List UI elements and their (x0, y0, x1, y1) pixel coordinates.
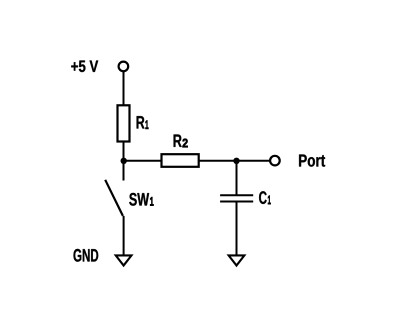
label R2 (174, 135, 182, 147)
label SW1 (129, 193, 149, 206)
switch SW1 blade (105, 180, 123, 216)
capacitor C1 top plate (220, 194, 253, 196)
terminal Port (270, 156, 280, 166)
node A junction dot (121, 158, 127, 164)
wire node A to switch (123, 161, 125, 181)
ground (left, under SW1) (114, 254, 134, 267)
wire R2 to Port terminal (199, 160, 271, 162)
wire node B to C1 (236, 161, 238, 196)
resistor R2 (162, 154, 199, 167)
ground (right, under C1) (227, 254, 247, 267)
label R1 (137, 116, 145, 128)
label C1 (259, 191, 267, 204)
terminal +5V (119, 62, 129, 72)
label Port (299, 155, 325, 167)
label GND (74, 249, 99, 262)
wire switch to ground (123, 216, 125, 256)
capacitor C1 bottom plate (220, 201, 253, 203)
wire terminal to R1 (123, 71, 125, 105)
wire C1 to ground (236, 202, 238, 257)
label +5 V (71, 61, 98, 73)
wire R1 to node A (123, 142, 125, 162)
wire node A to R2 (124, 160, 162, 162)
node B junction dot (233, 158, 239, 164)
resistor R1 (118, 105, 130, 141)
